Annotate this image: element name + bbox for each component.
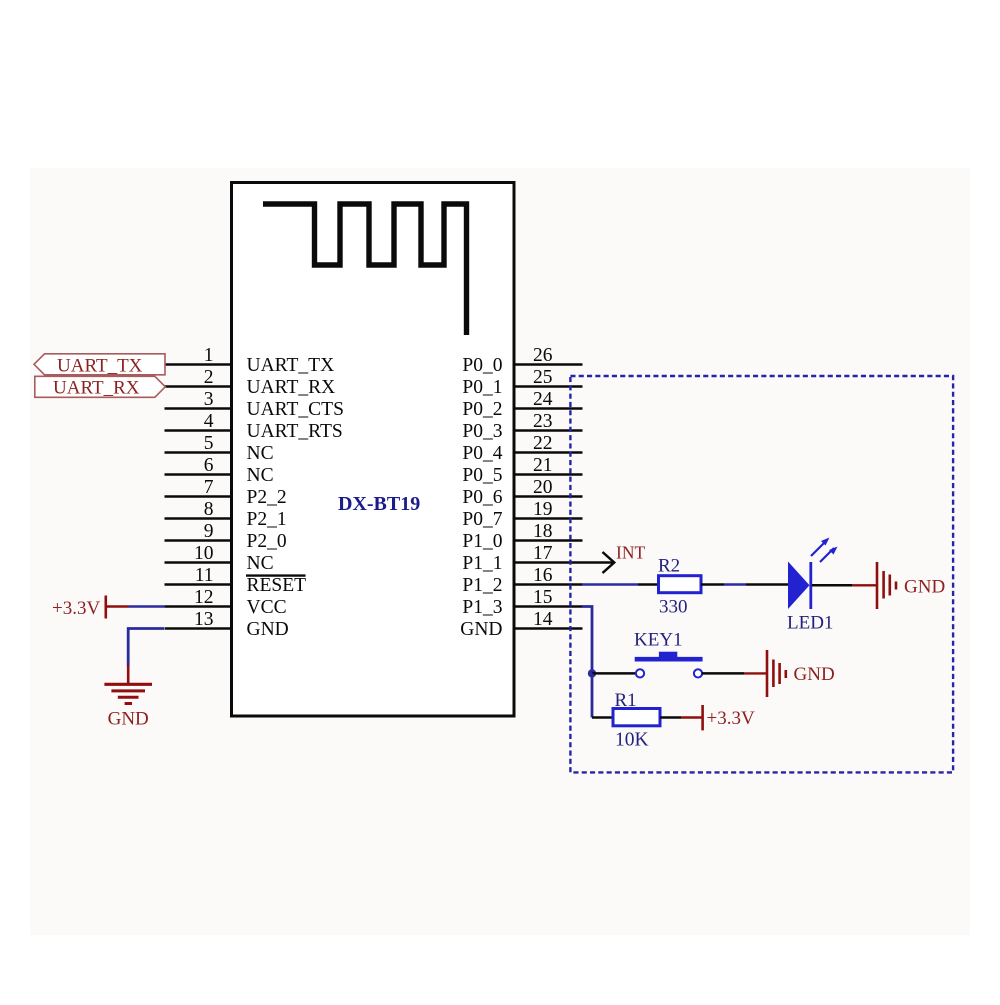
svg-text:P2_0: P2_0 bbox=[247, 531, 287, 552]
svg-text:NC: NC bbox=[247, 553, 274, 574]
pin 19 P0_7 (right) bbox=[462, 499, 582, 530]
wire GND pin 13 to ground bbox=[128, 629, 164, 667]
pin 20 P0_6 (right) bbox=[462, 477, 582, 508]
pin 7 P2_2 (left) bbox=[165, 477, 287, 508]
RESET active-low overline bbox=[246, 574, 306, 576]
pin 14 GND (right) bbox=[460, 609, 582, 640]
pin 6 NC (left) bbox=[165, 455, 274, 486]
wire P1_2 to R2 bbox=[582, 583, 638, 586]
antenna symbol bbox=[263, 204, 467, 335]
svg-text:P1_3: P1_3 bbox=[462, 597, 502, 618]
pin 13 GND (left) bbox=[165, 609, 289, 640]
svg-text:18: 18 bbox=[533, 521, 553, 542]
power +3.3V (VCC pin 12) bbox=[52, 596, 129, 620]
net flag UART_TX bbox=[34, 354, 165, 377]
pin 18 P1_0 (right) bbox=[462, 521, 582, 552]
svg-text:23: 23 bbox=[533, 411, 553, 432]
wire LED1 to ground bbox=[812, 584, 876, 587]
svg-text:12: 12 bbox=[194, 587, 214, 608]
svg-text:P0_1: P0_1 bbox=[462, 377, 502, 398]
svg-text:UART_RX: UART_RX bbox=[247, 377, 336, 398]
pin 16 P1_2 (right) bbox=[462, 565, 582, 596]
wire P1_3 down to junction bbox=[582, 607, 592, 674]
svg-text:10: 10 bbox=[194, 543, 214, 564]
pin 22 P0_4 (right) bbox=[462, 433, 582, 464]
wire R2 to LED1 bbox=[701, 583, 788, 586]
svg-text:UART_CTS: UART_CTS bbox=[247, 399, 344, 420]
pin 26 P0_0 (right) bbox=[462, 345, 582, 376]
svg-text:VCC: VCC bbox=[247, 597, 287, 618]
svg-text:GND: GND bbox=[108, 709, 149, 730]
svg-text:20: 20 bbox=[533, 477, 553, 498]
svg-text:LED1: LED1 bbox=[787, 613, 833, 634]
LED LED1 bbox=[788, 562, 811, 610]
dashed group border bbox=[570, 376, 953, 772]
svg-text:9: 9 bbox=[204, 521, 214, 542]
svg-text:2: 2 bbox=[204, 367, 214, 388]
INT net arrow (pin 17 P1_1) bbox=[583, 552, 615, 573]
pin 5 NC (left) bbox=[165, 433, 274, 464]
svg-text:UART_TX: UART_TX bbox=[57, 355, 143, 376]
svg-text:P2_2: P2_2 bbox=[247, 487, 287, 508]
svg-text:R1: R1 bbox=[615, 690, 637, 711]
svg-text:6: 6 bbox=[204, 455, 214, 476]
svg-text:P0_2: P0_2 bbox=[462, 399, 502, 420]
svg-text:P0_0: P0_0 bbox=[462, 355, 502, 376]
wire junction to KEY1 bbox=[592, 672, 636, 675]
svg-text:15: 15 bbox=[533, 587, 553, 608]
svg-text:5: 5 bbox=[204, 433, 214, 454]
ground GND (KEY1) bbox=[767, 650, 835, 697]
svg-text:16: 16 bbox=[533, 565, 553, 586]
svg-text:UART_TX: UART_TX bbox=[247, 355, 335, 376]
svg-text:17: 17 bbox=[533, 543, 553, 564]
svg-text:P1_2: P1_2 bbox=[462, 575, 502, 596]
svg-text:R2: R2 bbox=[658, 556, 680, 577]
pin 24 P0_2 (right) bbox=[462, 389, 582, 420]
svg-text:P0_6: P0_6 bbox=[462, 487, 502, 508]
pin 2 UART_RX (left) bbox=[165, 367, 336, 398]
svg-text:DX-BT19: DX-BT19 bbox=[338, 493, 420, 515]
svg-text:P0_3: P0_3 bbox=[462, 421, 502, 442]
LED light arrows bbox=[811, 538, 838, 563]
resistor R1 bbox=[613, 709, 660, 726]
pin 3 UART_CTS (left) bbox=[165, 389, 344, 420]
svg-text:GND: GND bbox=[904, 577, 945, 598]
resistor R2 bbox=[659, 576, 702, 593]
svg-text:8: 8 bbox=[204, 499, 214, 520]
IC U1 DX-BT19 body bbox=[232, 183, 515, 717]
junction node bbox=[588, 669, 596, 677]
pin 15 P1_3 (right) bbox=[462, 587, 582, 618]
svg-text:P0_5: P0_5 bbox=[462, 465, 502, 486]
pin 25 P0_1 (right) bbox=[462, 367, 582, 398]
ground GND (LED1) bbox=[877, 562, 945, 609]
svg-text:P2_1: P2_1 bbox=[247, 509, 287, 530]
switch KEY1 bbox=[635, 652, 703, 678]
pin 11 RESET (left) bbox=[165, 565, 307, 596]
pin 23 P0_3 (right) bbox=[462, 411, 582, 442]
svg-text:NC: NC bbox=[247, 465, 274, 486]
pin 10 NC (left) bbox=[165, 543, 274, 574]
svg-text:14: 14 bbox=[533, 609, 553, 630]
pin 8 P2_1 (left) bbox=[165, 499, 287, 530]
svg-text:26: 26 bbox=[533, 345, 553, 366]
svg-text:10K: 10K bbox=[615, 730, 649, 751]
pin 9 P2_0 (left) bbox=[165, 521, 287, 552]
pin 21 P0_5 (right) bbox=[462, 455, 582, 486]
svg-text:RESET: RESET bbox=[247, 575, 307, 596]
net flag UART_RX bbox=[35, 376, 166, 398]
svg-text:INT: INT bbox=[616, 543, 645, 563]
pin 17 P1_1 (right) bbox=[462, 543, 582, 574]
svg-text:22: 22 bbox=[533, 433, 553, 454]
svg-text:KEY1: KEY1 bbox=[634, 630, 683, 651]
svg-text:P1_1: P1_1 bbox=[462, 553, 502, 574]
svg-text:4: 4 bbox=[204, 411, 214, 432]
svg-text:+3.3V: +3.3V bbox=[52, 598, 100, 619]
wire +3.3V to VCC pin bbox=[129, 605, 166, 608]
svg-text:7: 7 bbox=[204, 477, 214, 498]
svg-text:P1_0: P1_0 bbox=[462, 531, 502, 552]
svg-text:GND: GND bbox=[247, 619, 289, 640]
pin 4 UART_RTS (left) bbox=[165, 411, 343, 442]
power +3.3V (R1 pullup) bbox=[703, 705, 755, 730]
svg-text:1: 1 bbox=[204, 345, 214, 366]
pin 12 VCC (left) bbox=[165, 587, 287, 618]
svg-text:21: 21 bbox=[533, 455, 553, 476]
wire KEY1 to ground bbox=[702, 672, 766, 675]
wire R1 to +3.3V bbox=[660, 716, 703, 719]
svg-text:3: 3 bbox=[204, 389, 214, 410]
svg-text:P0_4: P0_4 bbox=[462, 443, 502, 464]
svg-text:+3.3V: +3.3V bbox=[707, 708, 755, 729]
svg-text:NC: NC bbox=[247, 443, 274, 464]
svg-text:25: 25 bbox=[533, 367, 553, 388]
svg-text:P0_7: P0_7 bbox=[462, 509, 502, 530]
svg-text:24: 24 bbox=[533, 389, 553, 410]
svg-text:13: 13 bbox=[194, 609, 214, 630]
svg-text:19: 19 bbox=[533, 499, 553, 520]
svg-text:GND: GND bbox=[460, 619, 502, 640]
svg-text:GND: GND bbox=[794, 664, 835, 685]
svg-text:11: 11 bbox=[195, 565, 214, 586]
wire junction down to R1 bbox=[592, 673, 613, 717]
pin 1 UART_TX (left) bbox=[165, 345, 335, 376]
ground GND (left) bbox=[104, 665, 152, 730]
svg-text:UART_RTS: UART_RTS bbox=[247, 421, 343, 442]
svg-text:UART_RX: UART_RX bbox=[53, 378, 140, 399]
svg-text:330: 330 bbox=[659, 597, 688, 618]
